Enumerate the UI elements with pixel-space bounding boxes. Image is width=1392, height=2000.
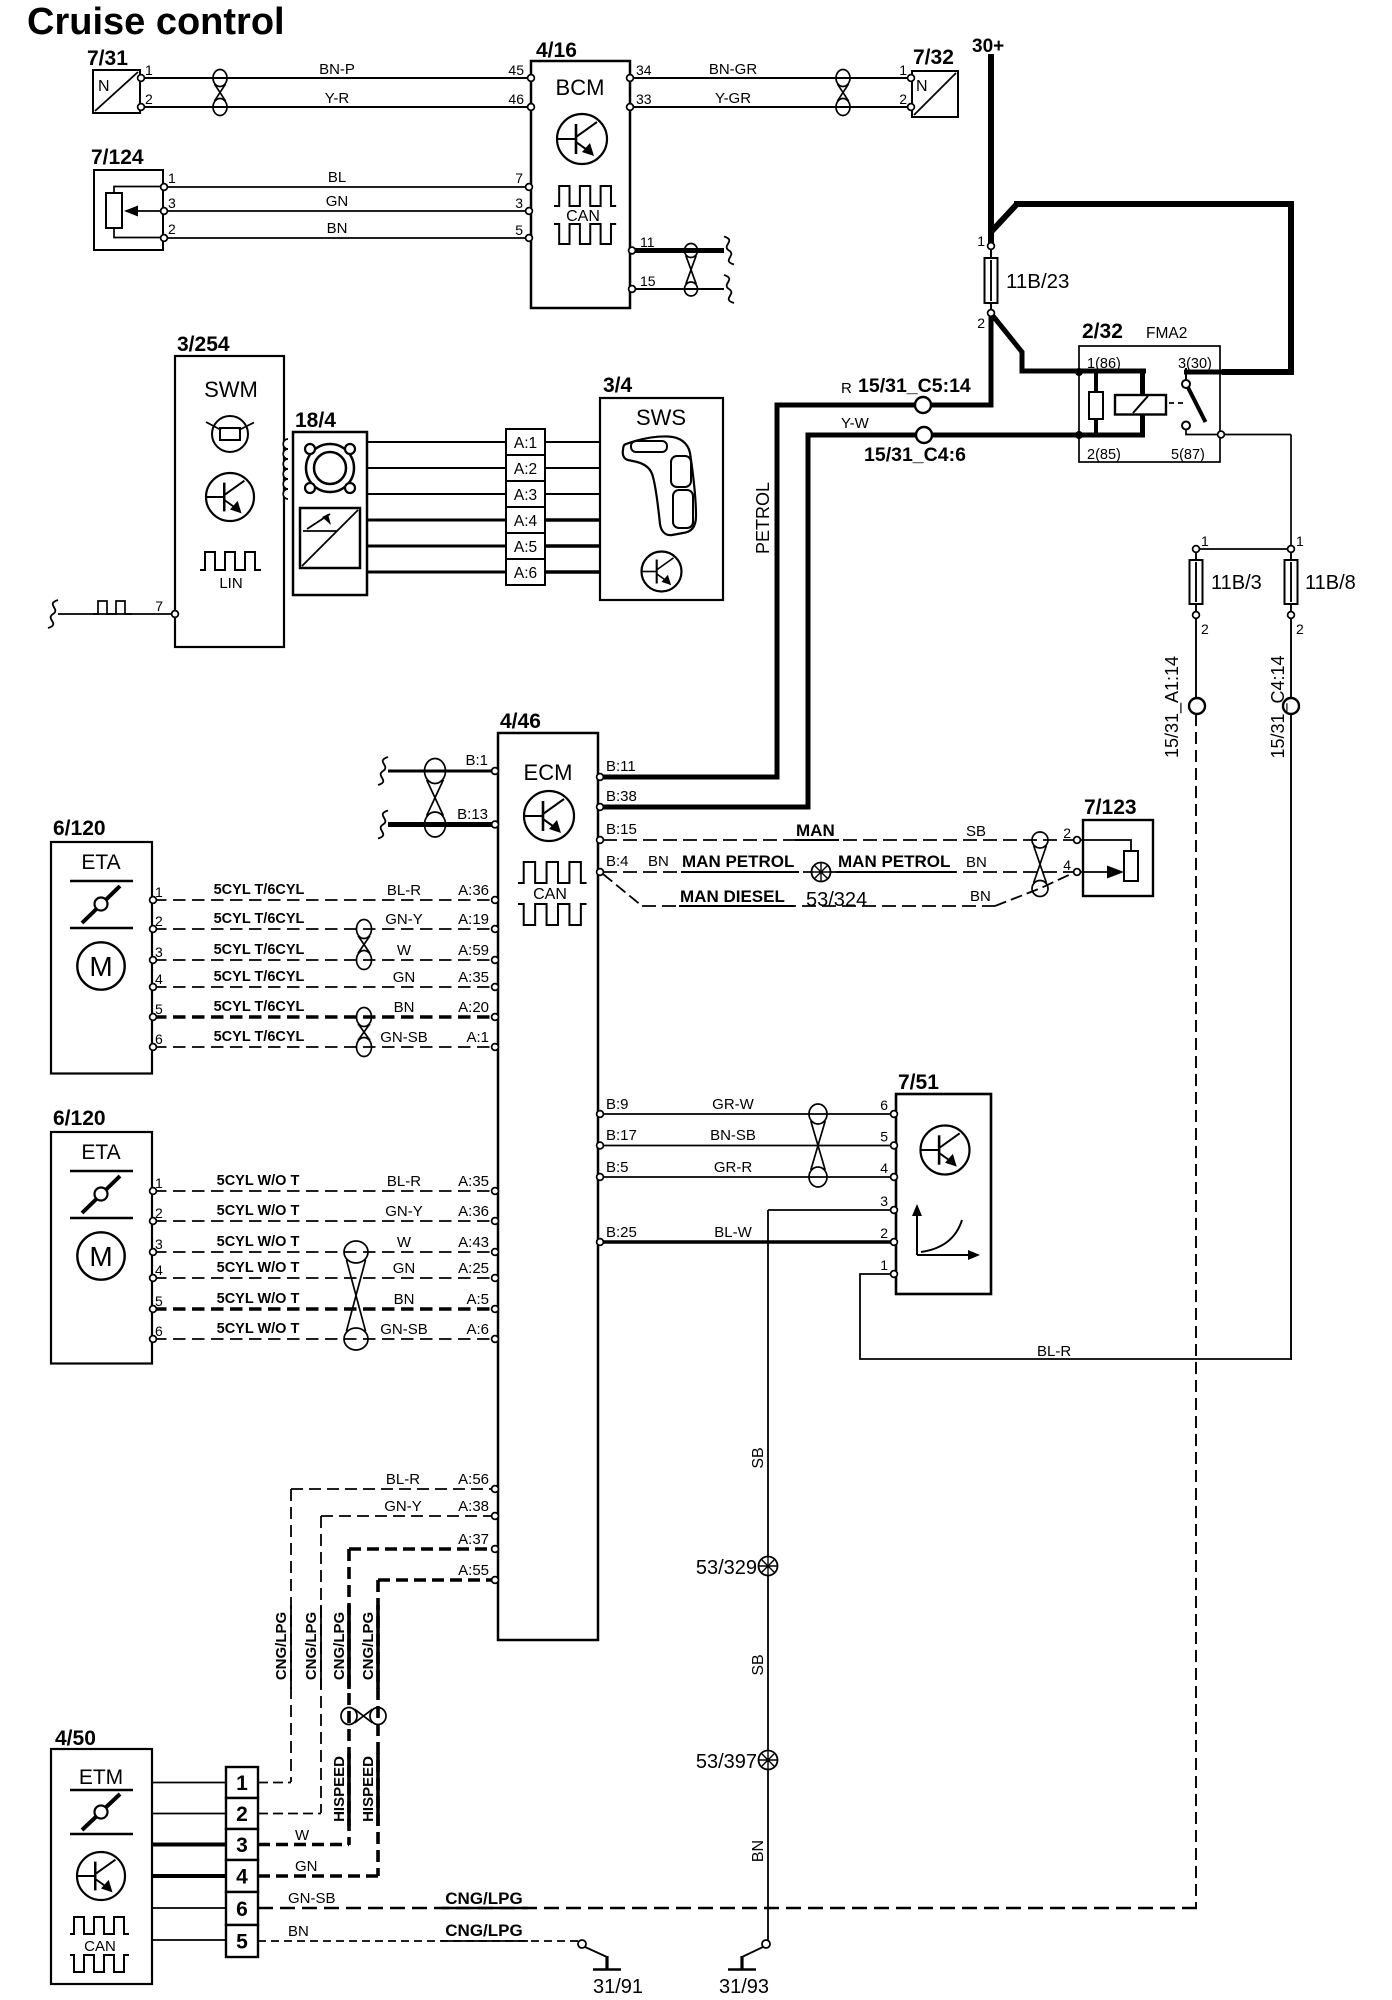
svg-text:HISPEED: HISPEED — [331, 1756, 348, 1822]
svg-text:B:13: B:13 — [457, 806, 488, 823]
svg-text:B:15: B:15 — [606, 821, 637, 838]
svg-text:3(30): 3(30) — [1178, 356, 1212, 372]
svg-text:M: M — [89, 1241, 112, 1272]
svg-text:BN-SB: BN-SB — [710, 1127, 756, 1144]
svg-text:Cruise control: Cruise control — [27, 1, 285, 43]
svg-text:BN: BN — [750, 1840, 767, 1862]
svg-text:5CYL T/6CYL: 5CYL T/6CYL — [214, 882, 305, 898]
svg-text:CNG/LPG: CNG/LPG — [360, 1612, 377, 1680]
svg-text:CAN: CAN — [533, 886, 567, 903]
svg-text:46: 46 — [508, 91, 524, 107]
svg-text:SB: SB — [750, 1447, 767, 1468]
svg-text:2: 2 — [155, 913, 163, 929]
svg-text:BL-W: BL-W — [714, 1224, 752, 1241]
svg-text:53/324: 53/324 — [806, 889, 867, 911]
svg-text:3: 3 — [236, 1834, 248, 1857]
svg-text:Y-GR: Y-GR — [715, 90, 751, 107]
svg-text:A:19: A:19 — [458, 911, 489, 928]
svg-text:A:37: A:37 — [458, 1531, 489, 1548]
svg-text:6/120: 6/120 — [53, 1107, 106, 1130]
svg-text:2: 2 — [168, 221, 176, 237]
svg-text:A:55: A:55 — [458, 1562, 489, 1579]
svg-text:R: R — [841, 380, 852, 397]
svg-text:PETROL: PETROL — [753, 482, 773, 554]
svg-text:6: 6 — [880, 1097, 888, 1113]
svg-text:GN-Y: GN-Y — [384, 1498, 422, 1515]
svg-text:M: M — [89, 951, 112, 982]
svg-text:11: 11 — [640, 234, 655, 250]
svg-text:7/31: 7/31 — [87, 47, 128, 70]
svg-text:B:9: B:9 — [606, 1096, 629, 1113]
svg-text:2: 2 — [880, 1225, 888, 1241]
svg-text:B:17: B:17 — [606, 1127, 637, 1144]
svg-text:Y-W: Y-W — [841, 415, 870, 432]
svg-text:3/4: 3/4 — [603, 374, 633, 397]
svg-text:ECM: ECM — [524, 760, 573, 785]
svg-text:BL-R: BL-R — [387, 1173, 421, 1190]
svg-text:3: 3 — [168, 195, 176, 211]
svg-text:1: 1 — [899, 62, 907, 78]
svg-text:GR-R: GR-R — [714, 1159, 752, 1176]
svg-text:BN-P: BN-P — [319, 61, 355, 78]
svg-text:5CYL W/O T: 5CYL W/O T — [217, 1260, 300, 1276]
svg-text:SWS: SWS — [636, 405, 686, 430]
svg-text:CAN: CAN — [84, 1938, 116, 1955]
svg-text:B:11: B:11 — [606, 758, 636, 775]
svg-text:N: N — [98, 78, 110, 95]
svg-text:5CYL T/6CYL: 5CYL T/6CYL — [214, 1029, 305, 1045]
svg-text:2: 2 — [1063, 825, 1071, 841]
svg-text:1: 1 — [155, 884, 163, 900]
svg-text:B:1: B:1 — [465, 752, 488, 769]
svg-text:30+: 30+ — [972, 36, 1004, 57]
svg-text:BL-R: BL-R — [387, 882, 421, 899]
svg-text:N: N — [916, 78, 928, 95]
svg-text:53/397: 53/397 — [696, 1751, 757, 1773]
svg-text:GN-SB: GN-SB — [288, 1890, 336, 1907]
svg-text:7/32: 7/32 — [913, 46, 954, 69]
svg-text:4/46: 4/46 — [500, 710, 541, 733]
svg-text:15/31_C4:14: 15/31_C4:14 — [1268, 655, 1289, 758]
svg-text:5CYL W/O T: 5CYL W/O T — [217, 1321, 300, 1337]
svg-text:GN-Y: GN-Y — [385, 1203, 423, 1220]
svg-text:2: 2 — [145, 91, 153, 107]
svg-text:6: 6 — [155, 1323, 163, 1339]
svg-text:2: 2 — [1296, 621, 1304, 637]
svg-text:4: 4 — [155, 1262, 163, 1278]
svg-text:A:36: A:36 — [458, 1203, 489, 1220]
svg-text:7: 7 — [515, 170, 523, 186]
svg-text:GN: GN — [393, 969, 416, 986]
svg-text:11B/3: 11B/3 — [1211, 572, 1262, 594]
svg-text:1: 1 — [236, 1772, 248, 1795]
svg-text:31/91: 31/91 — [593, 1976, 643, 1998]
svg-text:A:43: A:43 — [458, 1234, 489, 1251]
svg-text:HISPEED: HISPEED — [360, 1756, 377, 1822]
svg-text:GR-W: GR-W — [712, 1096, 754, 1113]
svg-text:A:38: A:38 — [458, 1498, 489, 1515]
svg-text:BN-GR: BN-GR — [709, 61, 758, 78]
svg-text:5: 5 — [155, 1293, 163, 1309]
svg-text:2: 2 — [155, 1205, 163, 1221]
svg-text:1: 1 — [977, 233, 985, 249]
svg-text:2/32: 2/32 — [1082, 320, 1123, 343]
svg-text:A:20: A:20 — [458, 999, 489, 1016]
svg-text:A:36: A:36 — [458, 882, 489, 899]
svg-text:BN: BN — [394, 999, 415, 1016]
svg-text:A:6: A:6 — [514, 565, 537, 582]
svg-text:ETA: ETA — [81, 851, 120, 874]
svg-text:B:4: B:4 — [606, 853, 629, 870]
svg-text:1: 1 — [1201, 533, 1209, 549]
svg-text:A:2: A:2 — [514, 461, 537, 478]
svg-text:5(87): 5(87) — [1171, 447, 1205, 463]
svg-text:BN: BN — [970, 888, 991, 905]
svg-text:BL: BL — [328, 169, 346, 186]
svg-text:3: 3 — [880, 1193, 888, 1209]
svg-text:1: 1 — [880, 1257, 888, 1273]
svg-text:31/93: 31/93 — [719, 1976, 769, 1998]
svg-text:ETA: ETA — [81, 1141, 120, 1164]
svg-text:GN: GN — [393, 1260, 416, 1277]
svg-text:A:56: A:56 — [458, 1471, 489, 1488]
svg-text:A:25: A:25 — [458, 1260, 489, 1277]
svg-text:15/31_C5:14: 15/31_C5:14 — [858, 375, 971, 397]
svg-text:BCM: BCM — [556, 75, 605, 100]
svg-text:5CYL T/6CYL: 5CYL T/6CYL — [214, 999, 305, 1015]
svg-text:GN: GN — [295, 1858, 318, 1875]
svg-text:6: 6 — [236, 1898, 248, 1921]
svg-text:2: 2 — [899, 91, 907, 107]
svg-text:CNG/LPG: CNG/LPG — [445, 1889, 522, 1908]
svg-text:5CYL W/O T: 5CYL W/O T — [217, 1234, 300, 1250]
svg-text:A:3: A:3 — [514, 487, 537, 504]
svg-text:3: 3 — [155, 1236, 163, 1252]
svg-text:CNG/LPG: CNG/LPG — [331, 1612, 348, 1680]
svg-text:1: 1 — [155, 1175, 163, 1191]
svg-text:15/31_A1:14: 15/31_A1:14 — [1162, 656, 1183, 758]
svg-text:1: 1 — [145, 62, 153, 78]
svg-text:BN: BN — [648, 853, 669, 870]
svg-text:18/4: 18/4 — [295, 409, 336, 432]
svg-text:GN-Y: GN-Y — [385, 911, 423, 928]
svg-text:BN: BN — [288, 1923, 309, 1940]
svg-text:5CYL W/O T: 5CYL W/O T — [217, 1173, 300, 1189]
svg-text:CNG/LPG: CNG/LPG — [273, 1612, 290, 1680]
svg-text:6/120: 6/120 — [53, 817, 106, 840]
svg-text:4: 4 — [155, 971, 163, 987]
svg-text:15: 15 — [640, 273, 656, 289]
svg-text:15/31_C4:6: 15/31_C4:6 — [864, 444, 966, 466]
svg-text:SB: SB — [966, 823, 986, 840]
svg-text:LIN: LIN — [219, 575, 242, 592]
svg-text:1: 1 — [168, 170, 176, 186]
svg-text:BL-R: BL-R — [1037, 1343, 1071, 1360]
svg-text:7/124: 7/124 — [91, 146, 144, 169]
svg-text:CAN: CAN — [566, 208, 600, 225]
svg-text:GN-SB: GN-SB — [380, 1029, 428, 1046]
svg-text:6: 6 — [155, 1031, 163, 1047]
svg-text:A:1: A:1 — [466, 1029, 489, 1046]
svg-text:33: 33 — [636, 91, 652, 107]
svg-text:45: 45 — [508, 62, 524, 78]
svg-text:5CYL T/6CYL: 5CYL T/6CYL — [214, 942, 305, 958]
svg-text:A:35: A:35 — [458, 1173, 489, 1190]
svg-text:2: 2 — [236, 1803, 248, 1826]
svg-text:7: 7 — [155, 598, 163, 614]
svg-text:FMA2: FMA2 — [1146, 325, 1187, 342]
svg-text:4: 4 — [1063, 857, 1071, 873]
svg-text:5CYL W/O T: 5CYL W/O T — [217, 1291, 300, 1307]
svg-text:A:59: A:59 — [458, 942, 489, 959]
svg-text:BN: BN — [394, 1291, 415, 1308]
svg-text:W: W — [397, 1234, 412, 1251]
svg-text:2: 2 — [1201, 621, 1209, 637]
svg-text:MAN: MAN — [796, 821, 835, 840]
svg-text:SWM: SWM — [204, 377, 258, 402]
svg-text:11B/8: 11B/8 — [1305, 572, 1356, 594]
svg-text:BN: BN — [966, 854, 987, 871]
svg-text:1(86): 1(86) — [1087, 356, 1121, 372]
svg-text:A:6: A:6 — [466, 1321, 489, 1338]
svg-text:MAN PETROL: MAN PETROL — [682, 852, 794, 871]
svg-text:5: 5 — [236, 1931, 248, 1954]
svg-text:11B/23: 11B/23 — [1006, 270, 1069, 293]
svg-text:5: 5 — [880, 1129, 888, 1145]
svg-text:A:4: A:4 — [514, 513, 538, 530]
svg-text:7/123: 7/123 — [1084, 796, 1137, 819]
svg-text:5: 5 — [515, 222, 523, 238]
svg-text:4: 4 — [880, 1160, 888, 1176]
svg-text:B:25: B:25 — [606, 1224, 637, 1241]
svg-text:A:1: A:1 — [514, 435, 537, 452]
svg-text:5CYL T/6CYL: 5CYL T/6CYL — [214, 911, 305, 927]
svg-text:4: 4 — [236, 1866, 248, 1889]
svg-text:3/254: 3/254 — [177, 333, 230, 356]
svg-text:A:5: A:5 — [514, 539, 537, 556]
svg-text:5: 5 — [155, 1001, 163, 1017]
svg-text:7/51: 7/51 — [898, 1071, 939, 1094]
svg-text:MAN PETROL: MAN PETROL — [838, 852, 950, 871]
svg-text:2: 2 — [977, 315, 985, 331]
svg-text:W: W — [295, 1827, 310, 1844]
svg-text:53/329: 53/329 — [696, 1557, 757, 1579]
svg-text:GN: GN — [326, 193, 349, 210]
svg-text:BN: BN — [327, 220, 348, 237]
svg-text:B:38: B:38 — [606, 788, 637, 805]
svg-text:34: 34 — [636, 62, 652, 78]
svg-text:A:35: A:35 — [458, 969, 489, 986]
svg-text:4/16: 4/16 — [536, 39, 577, 62]
svg-text:4/50: 4/50 — [55, 1727, 96, 1750]
svg-text:2(85): 2(85) — [1087, 447, 1121, 463]
svg-text:GN-SB: GN-SB — [380, 1321, 428, 1338]
svg-text:CNG/LPG: CNG/LPG — [303, 1612, 320, 1680]
svg-text:SB: SB — [750, 1654, 767, 1675]
svg-text:A:5: A:5 — [466, 1291, 489, 1308]
svg-text:Y-R: Y-R — [325, 90, 350, 107]
svg-text:3: 3 — [515, 195, 523, 211]
svg-text:BL-R: BL-R — [386, 1471, 420, 1488]
svg-text:ETM: ETM — [79, 1766, 123, 1789]
svg-text:MAN DIESEL: MAN DIESEL — [680, 887, 785, 906]
svg-text:5CYL W/O T: 5CYL W/O T — [217, 1203, 300, 1219]
svg-text:3: 3 — [155, 944, 163, 960]
svg-text:5CYL T/6CYL: 5CYL T/6CYL — [214, 969, 305, 985]
svg-text:CNG/LPG: CNG/LPG — [445, 1921, 522, 1940]
svg-text:B:5: B:5 — [606, 1159, 629, 1176]
svg-text:W: W — [397, 942, 412, 959]
svg-text:1: 1 — [1296, 533, 1304, 549]
